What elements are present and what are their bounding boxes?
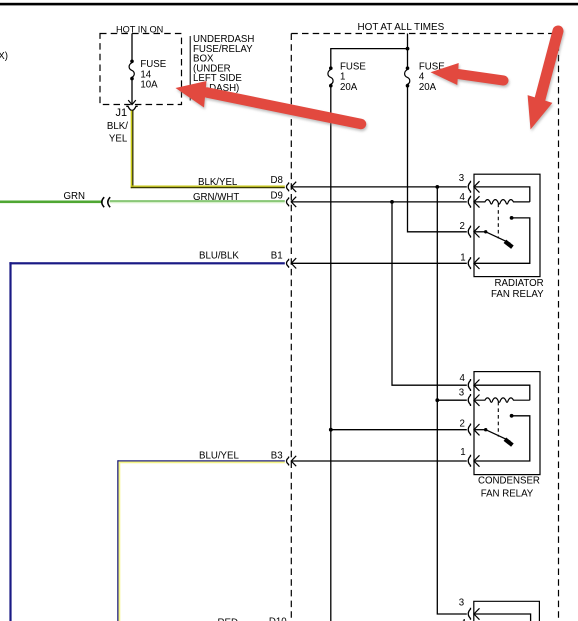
svg-text:20A: 20A [419,82,437,93]
svg-text:1: 1 [460,447,465,458]
svg-text:D10: D10 [269,617,287,621]
wire BLK/YEL vertical from J1 [130,111,132,189]
condenser fan relay box [474,372,540,475]
wire to condenser relay pin 2 [331,429,467,431]
wire BLU/YEL from bottom left [118,460,285,462]
condenser relay armature dashed link [497,402,499,437]
svg-text:YEL: YEL [109,134,128,145]
top border line [0,3,578,6]
fuse 14 10A [130,60,134,64]
radiator relay switch common pin 2 [474,231,486,233]
underhood fuse/relay box dashed boundary HOT AT ALL TIMES [291,34,558,621]
svg-text:B1: B1 [271,250,283,261]
svg-text:BLU/BLK: BLU/BLK [199,250,239,261]
svg-text:BLK/YEL: BLK/YEL [198,177,238,188]
junction node above fuse 4 [406,47,410,51]
connector J1 (arrow + cup) [128,100,136,105]
condenser relay switch arm [486,430,511,442]
wire to condenser relay pin 3 [437,399,467,401]
wire fuse 4 output to radiator relay pin 2 [408,86,467,232]
junction node on D9 wire [390,200,394,204]
junction node condenser pin 3 [435,398,439,402]
svg-text:BLK/: BLK/ [107,121,128,132]
svg-text:BLU/YEL: BLU/YEL [199,450,239,461]
radiator relay armature dashed link [497,204,499,239]
wire from box boundary to fuses [407,34,409,69]
svg-text:3: 3 [459,173,464,184]
svg-text:B3: B3 [271,450,283,461]
svg-text:J1: J1 [116,107,128,119]
radiator relay fixed contact to pin 1 [510,216,514,220]
svg-text:CONDENSER: CONDENSER [478,475,540,486]
svg-text:(X): (X) [0,51,8,62]
svg-text:RADIATOR: RADIATOR [495,278,544,289]
wire D8 to radiator relay pin 3 [291,186,467,188]
red annotation arrow 2 pointing at fuse 4 [431,63,504,85]
wire D8 branch down to condenser relay pin 3 and bottom relay [437,187,467,614]
red annotation arrow 1 pointing at underdash fuse box [176,81,362,124]
svg-text:2: 2 [460,419,465,430]
fuse 4 20A [406,66,410,70]
condenser relay switch common pin 2 [474,429,486,431]
wire from HOT IN ON to fuse 14 [131,34,133,62]
svg-text:20A: 20A [340,82,358,93]
condenser relay coil [474,398,530,402]
svg-text:GRN: GRN [64,191,86,202]
wire branch to fuse 1 [331,49,408,69]
svg-text:1: 1 [460,252,465,263]
fuse 1 20A [329,66,333,70]
wire BLU/BLK from left [9,262,284,264]
svg-text:D9: D9 [271,191,283,202]
junction node on fuse 1 wire [329,428,333,432]
svg-text:RED: RED [218,617,238,621]
svg-text:FAN RELAY: FAN RELAY [491,289,544,300]
wire B3 to condenser relay pin 1 [291,460,467,462]
svg-text:D8: D8 [271,175,283,186]
svg-text:10A: 10A [140,80,158,91]
condenser relay pin 4 internal loop [474,385,530,400]
svg-text:FAN RELAY: FAN RELAY [481,488,534,499]
label UNDERDASH FUSE/RELAY BOX bracket line [189,36,191,101]
svg-text:4: 4 [460,373,466,384]
svg-text:3: 3 [459,597,464,608]
junction node on D8 wire [435,185,439,189]
bottom relay pin 3 internal loop [474,614,531,621]
radiator relay switch arm [486,232,511,244]
wire fuse 1 output down to bottom [330,86,332,621]
svg-text:HOT IN ON: HOT IN ON [116,25,163,35]
splice on GRN wire [102,197,104,207]
svg-text:3: 3 [459,387,464,398]
radiator fan relay box [474,174,540,276]
svg-text:4: 4 [460,192,466,203]
radiator relay pin 3 internal loop [474,187,530,202]
condenser relay fixed contact to pin 1 [510,414,514,418]
wire GRN/WHT to D9 [110,200,285,202]
wire fuse 14 to connector J1 [131,79,133,104]
wire D9 to radiator relay pin 4 [291,201,467,203]
wire BLK/YEL horizontal to D8 [131,185,285,187]
red annotation arrow 3 pointing down into relay box [528,31,558,130]
wire D9 branch down to condenser relay pin 4 [392,202,467,385]
svg-text:2: 2 [460,221,465,232]
wire B1 to radiator relay pin 1 [291,262,467,264]
wire GRN from left edge [0,201,103,204]
svg-text:GRN/WHT: GRN/WHT [193,192,239,203]
radiator relay coil [474,200,530,204]
bottom relay box (cut off) [474,601,540,621]
hot in on fuse box (dashed) [100,34,182,105]
svg-text:HOT AT ALL TIMES: HOT AT ALL TIMES [358,22,445,33]
label UNDERDASH FUSE/RELAY BOX (UNDER LEFT SIDE OF DASH) [193,34,254,94]
